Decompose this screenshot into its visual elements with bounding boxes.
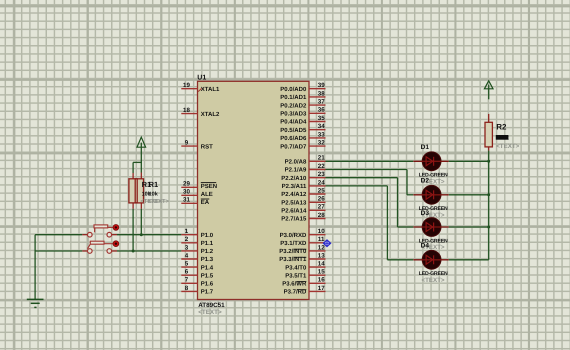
svg-text:<TEXT>: <TEXT> bbox=[147, 199, 169, 205]
svg-text:30: 30 bbox=[183, 189, 190, 196]
svg-text:35: 35 bbox=[318, 115, 325, 122]
svg-text:P0.7/AD7: P0.7/AD7 bbox=[280, 143, 307, 150]
svg-text:P1.4: P1.4 bbox=[201, 264, 214, 271]
svg-text:26: 26 bbox=[318, 196, 325, 203]
svg-text:P3.0/RXD: P3.0/RXD bbox=[280, 232, 307, 239]
svg-text:27: 27 bbox=[318, 204, 325, 211]
svg-text:28: 28 bbox=[318, 212, 325, 219]
svg-text:5: 5 bbox=[185, 261, 189, 268]
svg-text:36: 36 bbox=[318, 107, 325, 114]
svg-text:3: 3 bbox=[185, 244, 189, 251]
svg-text:24: 24 bbox=[318, 179, 325, 186]
svg-text:16: 16 bbox=[318, 277, 325, 284]
svg-text:P3.4/T0: P3.4/T0 bbox=[285, 264, 307, 271]
svg-text:32: 32 bbox=[318, 140, 325, 147]
svg-text:33: 33 bbox=[318, 131, 325, 138]
svg-text:RST: RST bbox=[201, 143, 213, 150]
svg-text:1: 1 bbox=[185, 228, 189, 235]
svg-text:19: 19 bbox=[183, 82, 190, 89]
svg-text:P1.3: P1.3 bbox=[201, 256, 214, 263]
svg-text:220k: 220k bbox=[496, 135, 509, 142]
svg-text:38: 38 bbox=[318, 90, 325, 97]
svg-text:P0.2/AD2: P0.2/AD2 bbox=[280, 102, 307, 109]
svg-text:39: 39 bbox=[318, 82, 325, 89]
svg-text:6: 6 bbox=[185, 269, 189, 276]
svg-text:P2.6/A14: P2.6/A14 bbox=[281, 208, 307, 215]
svg-text:D1: D1 bbox=[421, 144, 430, 151]
svg-text:PSEN: PSEN bbox=[201, 183, 217, 190]
svg-text:AT89C51: AT89C51 bbox=[198, 302, 225, 309]
svg-text:21: 21 bbox=[318, 155, 325, 162]
svg-text:P1.6: P1.6 bbox=[201, 281, 214, 288]
svg-text:D3: D3 bbox=[421, 210, 430, 217]
svg-text:34: 34 bbox=[318, 123, 325, 130]
svg-text:P0.3/AD3: P0.3/AD3 bbox=[280, 111, 307, 118]
svg-text:P2.2/A10: P2.2/A10 bbox=[281, 175, 307, 182]
svg-text:<TEXT>: <TEXT> bbox=[422, 277, 445, 284]
svg-text:P3.1/TXD: P3.1/TXD bbox=[280, 240, 307, 247]
svg-text:<TEXT>: <TEXT> bbox=[496, 143, 519, 150]
svg-text:P2.5/A13: P2.5/A13 bbox=[281, 200, 307, 207]
svg-text:P0.5/AD5: P0.5/AD5 bbox=[280, 127, 307, 134]
svg-text:8: 8 bbox=[185, 285, 189, 292]
svg-text:10: 10 bbox=[318, 228, 325, 235]
svg-text:2: 2 bbox=[185, 236, 189, 243]
svg-text:P1.5: P1.5 bbox=[201, 272, 214, 279]
svg-text:14: 14 bbox=[318, 261, 325, 268]
svg-text:D2: D2 bbox=[421, 178, 430, 185]
svg-text:9: 9 bbox=[185, 140, 189, 147]
svg-text:<TEXT>: <TEXT> bbox=[198, 309, 222, 316]
svg-text:P2.4/A12: P2.4/A12 bbox=[281, 191, 307, 198]
svg-text:U1: U1 bbox=[197, 74, 206, 81]
svg-text:EA: EA bbox=[201, 199, 210, 206]
svg-text:4: 4 bbox=[185, 252, 189, 259]
svg-text:XTAL1: XTAL1 bbox=[201, 86, 220, 93]
svg-text:31: 31 bbox=[183, 197, 190, 204]
svg-text:P1.1: P1.1 bbox=[201, 240, 214, 247]
svg-text:23: 23 bbox=[318, 171, 325, 178]
svg-text:37: 37 bbox=[318, 99, 325, 106]
svg-text:P0.0/AD0: P0.0/AD0 bbox=[280, 86, 307, 93]
svg-text:29: 29 bbox=[183, 181, 190, 188]
svg-text:P1.0: P1.0 bbox=[201, 232, 214, 239]
svg-text:P1.2: P1.2 bbox=[201, 248, 214, 255]
svg-text:XTAL2: XTAL2 bbox=[201, 111, 220, 118]
svg-text:15: 15 bbox=[318, 269, 325, 276]
svg-text:P3.5/T1: P3.5/T1 bbox=[285, 272, 307, 279]
svg-text:P2.1/A9: P2.1/A9 bbox=[285, 167, 307, 174]
svg-text:10k: 10k bbox=[149, 191, 159, 197]
svg-text:7: 7 bbox=[185, 277, 189, 284]
svg-text:R2: R2 bbox=[496, 123, 507, 132]
svg-text:P1.7: P1.7 bbox=[201, 289, 214, 296]
svg-text:P2.0/A8: P2.0/A8 bbox=[285, 159, 307, 166]
svg-text:P2.3/A11: P2.3/A11 bbox=[282, 183, 307, 190]
svg-text:R1: R1 bbox=[149, 180, 159, 189]
svg-text:P0.1/AD1: P0.1/AD1 bbox=[280, 94, 307, 101]
svg-text:ALE: ALE bbox=[201, 191, 213, 198]
svg-text:P0.4/AD4: P0.4/AD4 bbox=[280, 119, 307, 126]
svg-text:22: 22 bbox=[318, 163, 325, 170]
svg-text:25: 25 bbox=[318, 187, 325, 194]
svg-text:12: 12 bbox=[318, 244, 325, 251]
svg-text:13: 13 bbox=[318, 252, 325, 259]
svg-text:P0.6/AD6: P0.6/AD6 bbox=[280, 135, 307, 142]
svg-text:18: 18 bbox=[183, 107, 190, 114]
svg-text:D4: D4 bbox=[421, 243, 430, 250]
svg-text:17: 17 bbox=[318, 285, 325, 292]
svg-text:P2.7/A15: P2.7/A15 bbox=[281, 216, 307, 223]
